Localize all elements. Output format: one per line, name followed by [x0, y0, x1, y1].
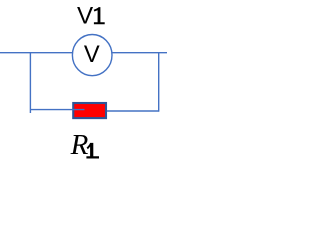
wire — [0, 52, 167, 54]
voltmeter U1 circle — [72, 35, 112, 76]
svg-text:R: R — [70, 129, 89, 161]
wire — [30, 109, 85, 111]
label V1 : digit 1 — [94, 7, 105, 24]
resistor R1 — [73, 103, 106, 118]
svg-text:V: V — [77, 2, 94, 29]
wire — [29, 52, 31, 113]
wire — [107, 110, 159, 112]
wire — [158, 52, 160, 112]
svg-text:V: V — [84, 42, 100, 68]
label R1 : subscript 1 — [86, 143, 99, 159]
